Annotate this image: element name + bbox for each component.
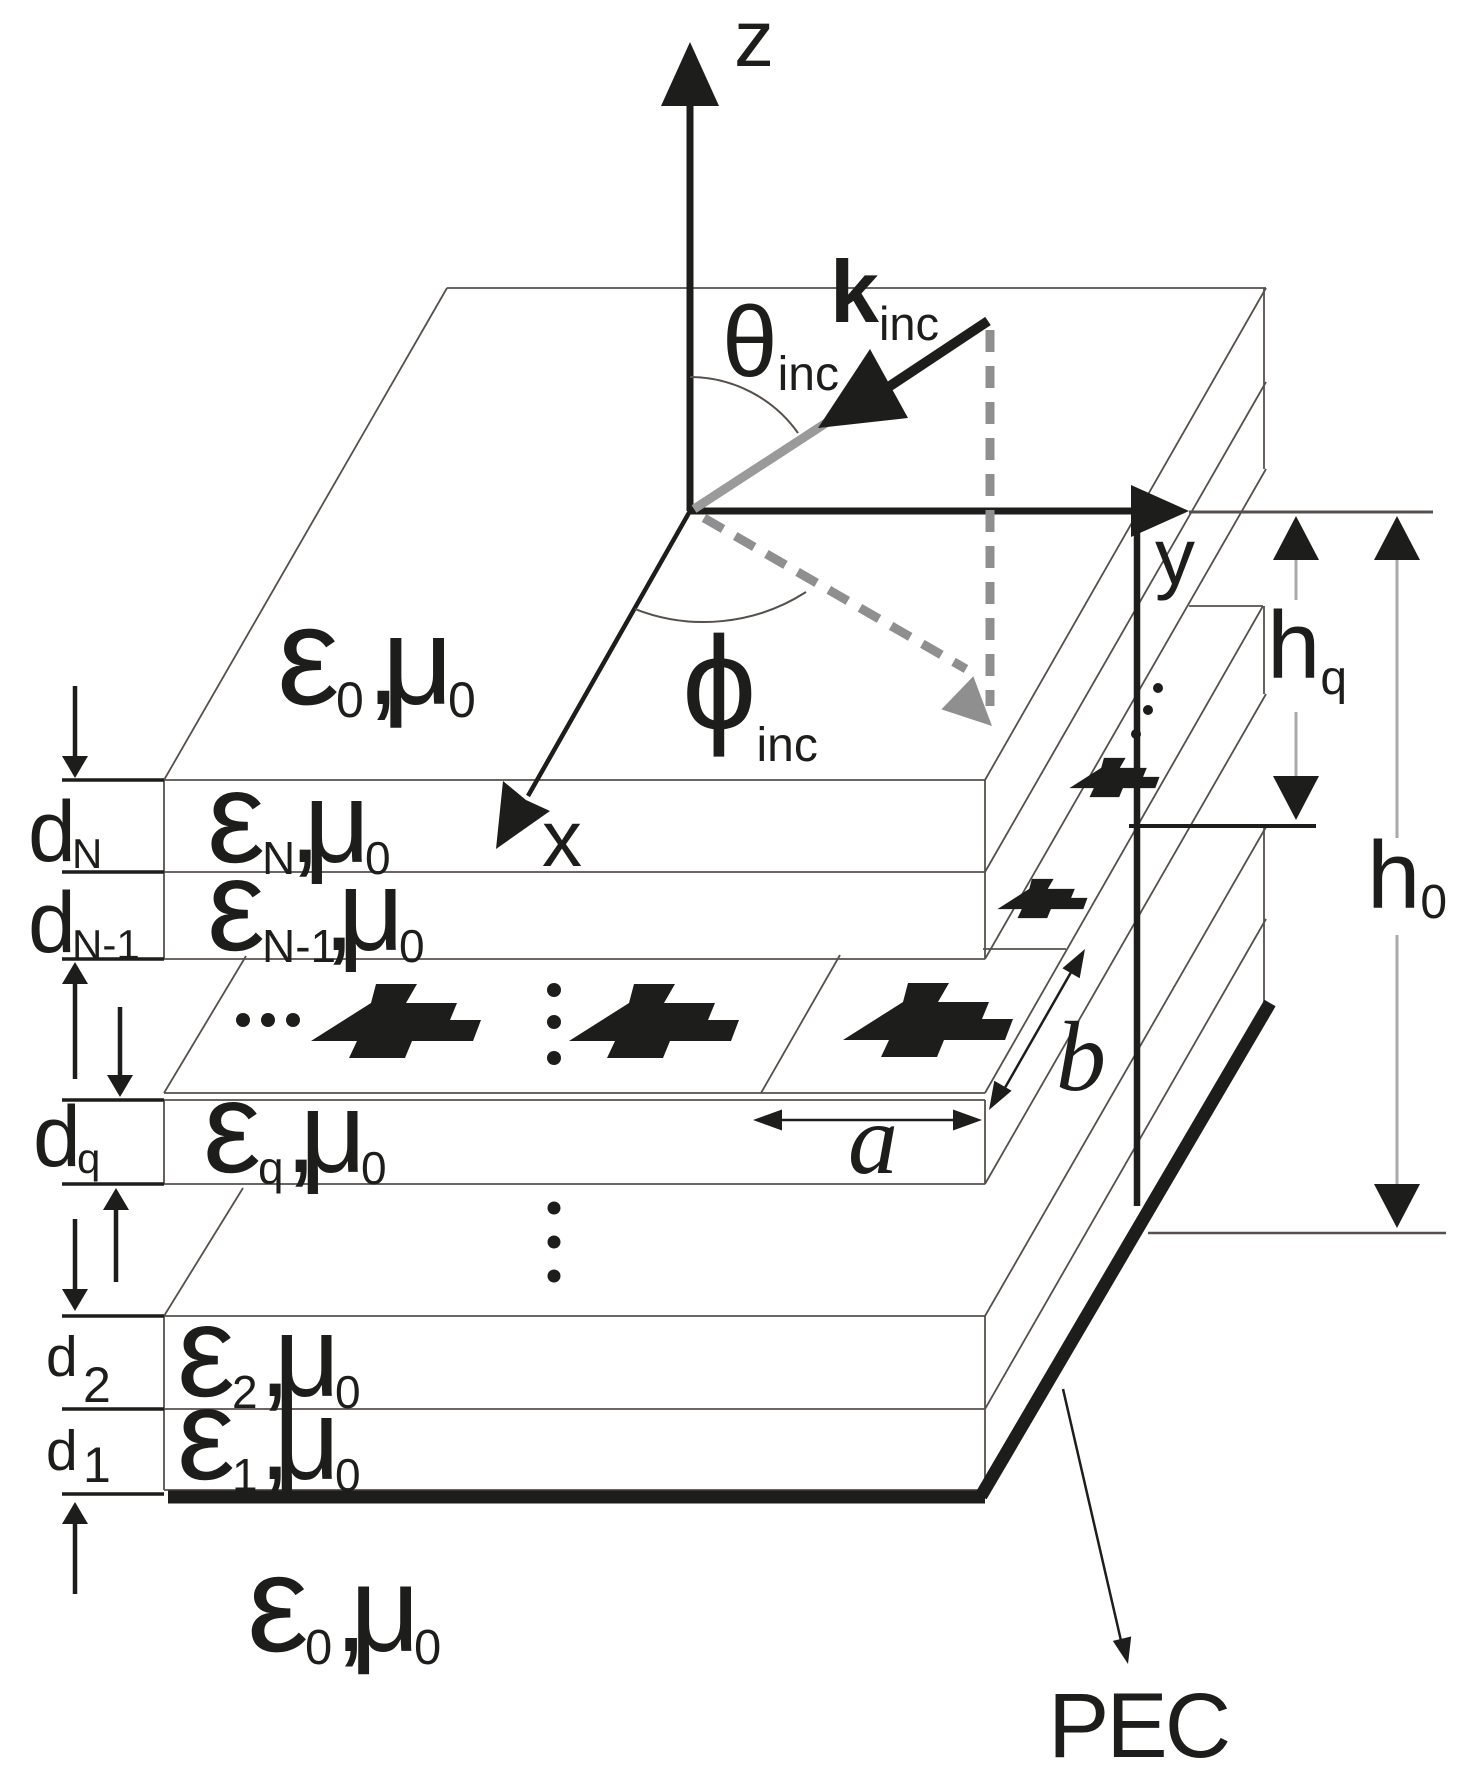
svg-text:εq,μ0: εq,μ0 [203, 1054, 387, 1200]
phi_inc arc [635, 592, 806, 622]
svg-text:ε1,μ0: ε1,μ0 [177, 1361, 361, 1507]
svg-text:x: x [542, 794, 582, 883]
h reference top line [1189, 511, 1433, 514]
svg-text:b: b [1056, 1001, 1106, 1112]
h_q dimension arrows [1273, 516, 1319, 560]
x axis [528, 511, 690, 796]
layer slab q right face [985, 694, 1266, 1184]
h_0 bottom reference line [1148, 1232, 1446, 1235]
k_inc arrow [884, 321, 988, 390]
depth dots behind right-side crosses [1153, 683, 1163, 693]
d_N bracket lines [62, 778, 164, 781]
vertical dots below slab q [548, 1202, 561, 1215]
d_2 / d_1 bracket lines [62, 1314, 164, 1317]
arrow pointing down at top of layer 2 [62, 1289, 88, 1311]
dashed projection of k on plane [704, 518, 966, 669]
vertical dots between crosses [547, 983, 561, 997]
h_q bottom reference line [1129, 824, 1316, 828]
k_inc gray ray to origin [694, 423, 826, 509]
PEC label arrow [1063, 1389, 1122, 1645]
arrow pointing down at top of layer q [107, 1075, 133, 1097]
d_N-1 bracket line [62, 957, 164, 960]
layer slab N/N-1 right face [985, 382, 1266, 872]
FSS cross patch 2 [569, 984, 739, 1058]
layer slab q front face [164, 1099, 985, 1101]
bottom slab right face [985, 827, 1266, 1316]
FSS sheet (crosses plane) [164, 1092, 985, 1094]
arrow pointing up at PEC plane [62, 1502, 88, 1524]
arrow pointing down at top of layer N [62, 756, 88, 778]
arrow pointing up at bottom of layer q [103, 1188, 129, 1210]
svg-text:a: a [848, 1084, 898, 1195]
theta_inc arc [690, 377, 798, 433]
z axis [687, 105, 694, 511]
FSS cross patch 3 [843, 983, 1013, 1057]
svg-text:z: z [734, 0, 774, 83]
dashed vertical projection line [986, 330, 995, 706]
FSS cross patch 1 [311, 984, 481, 1058]
svg-text:PEC: PEC [1048, 1675, 1228, 1777]
layer slab N/N-1 front face [164, 779, 985, 781]
y axis [690, 508, 1135, 515]
vertical corner reference line [1134, 515, 1141, 1206]
FSS cross patch 4 (behind, right side) [997, 879, 1087, 918]
h_0 dimension arrows [1374, 516, 1420, 560]
a dimension double arrow [760, 1119, 973, 1122]
bottom slab (eps2/eps1) front face [164, 1315, 985, 1317]
PEC ground plane thick oblique edge [981, 1003, 1270, 1496]
svg-text:y: y [1155, 512, 1195, 601]
ellipsis dots left of cross row [236, 1013, 250, 1027]
FSS cross patch 5 (behind, right side) [1069, 758, 1159, 797]
top face of upper slab (air interface plane) [164, 288, 447, 780]
svg-text:ε0,μ0: ε0,μ0 [277, 577, 476, 734]
d_q bracket lines [62, 1098, 164, 1101]
b dimension double arrow [998, 960, 1078, 1100]
PEC ground plane thick front line [168, 1491, 985, 1504]
svg-text:ε0,μ0: ε0,μ0 [247, 1527, 441, 1681]
arrow pointing up at bottom of layer N-1 [62, 962, 88, 984]
